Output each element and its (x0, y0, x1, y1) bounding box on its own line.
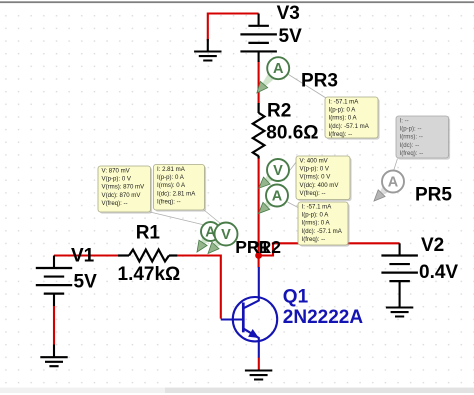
probe readout box PR3 (327, 99, 380, 140)
leader line PR3 (289, 75, 327, 99)
svg-text:5V: 5V (74, 272, 98, 293)
svg-text:V(freq): --: V(freq): -- (102, 200, 128, 207)
svg-text:I(p-p): 0 A: I(p-p): 0 A (302, 212, 330, 219)
svg-text:Q1: Q1 (283, 286, 309, 307)
wire collector node to V2 (259, 243, 400, 255)
svg-text:V1: V1 (71, 246, 95, 267)
wire R1 to Q1 base (177, 256, 221, 319)
svg-text:V(rms): 870 mV: V(rms): 870 mV (102, 184, 146, 191)
probe PR5 (inactive, gray) (380, 186, 389, 195)
svg-text:I(dc): 2.81 mA: I(dc): 2.81 mA (157, 190, 196, 197)
bottom horizontal scrollbar (0, 388, 474, 393)
svg-text:0.4V: 0.4V (419, 262, 458, 283)
svg-text:I: 2.81 mA: I: 2.81 mA (157, 166, 186, 173)
probe readout box PR1 voltage (100, 168, 153, 214)
svg-text:A: A (272, 188, 283, 204)
power source V2 (399, 243, 401, 255)
svg-text:V(freq): --: V(freq): -- (300, 190, 326, 197)
svg-text:V(dc): 870 mV: V(dc): 870 mV (102, 192, 142, 199)
wire V3 top to ground (208, 14, 259, 41)
probe readout box PR1 current (155, 166, 206, 212)
svg-text:I(p-p): 0 A: I(p-p): 0 A (329, 107, 357, 114)
leader line A probe mid (288, 202, 300, 208)
svg-text:V(rms): 0 V: V(rms): 0 V (300, 174, 332, 181)
probe PR4 current (mid A) (265, 200, 273, 208)
svg-text:I(rms): 0 A: I(rms): 0 A (157, 182, 186, 189)
wire collector node to Q1 collector (258, 256, 260, 268)
ground (Q1 emitter) (245, 371, 272, 380)
svg-text:R1: R1 (136, 223, 161, 244)
svg-text:I(freq): --: I(freq): -- (157, 199, 181, 206)
svg-text:5V: 5V (279, 26, 303, 47)
leader line left I box (204, 210, 224, 226)
wire V3 bottom to R2 (258, 62, 260, 104)
probe PR2 voltage (mid V) (265, 174, 273, 182)
power source V3 (258, 14, 260, 26)
svg-text:PR3: PR3 (301, 71, 338, 92)
ground (V2) (386, 308, 413, 317)
svg-text:PR2: PR2 (247, 237, 281, 257)
wire V1 to R1 (54, 254, 119, 256)
leader line left V box (150, 212, 207, 226)
svg-text:V3: V3 (277, 3, 300, 24)
leader line V probe mid (289, 161, 298, 172)
svg-text:I(dc): --: I(dc): -- (400, 142, 420, 149)
ground (V1) (53, 345, 55, 358)
svg-text:V: 400 mV: V: 400 mV (300, 157, 329, 164)
wire Q1 emitter to ground (258, 357, 260, 370)
svg-text:V(p-p): 0 V: V(p-p): 0 V (300, 166, 330, 173)
transistor Q1 2N2222A (221, 267, 277, 358)
node collector junction (255, 252, 262, 259)
svg-text:I(p-p): 0 A: I(p-p): 0 A (157, 174, 185, 181)
svg-text:2N2222A: 2N2222A (283, 307, 364, 328)
svg-text:I: -57.1 mA: I: -57.1 mA (329, 98, 360, 105)
svg-text:I(freq): --: I(freq): -- (329, 131, 353, 138)
svg-text:80.6Ω: 80.6Ω (266, 123, 318, 144)
svg-text:V2: V2 (421, 235, 444, 256)
svg-text:I: -57.1 mA: I: -57.1 mA (302, 203, 333, 210)
svg-text:A: A (273, 61, 284, 77)
ground (V3) (207, 39, 209, 52)
probe readout box PR5 (inactive) (398, 118, 451, 160)
svg-text:I(p-p): --: I(p-p): -- (400, 126, 422, 133)
svg-text:I(rms): 0 A: I(rms): 0 A (329, 115, 358, 122)
probe readout box PR2 voltage (298, 158, 352, 202)
svg-text:V(p-p): 0 V: V(p-p): 0 V (102, 176, 132, 183)
probe readout box PR4 current (300, 204, 350, 247)
resistor R1 (118, 254, 129, 256)
svg-text:1.47kΩ: 1.47kΩ (118, 264, 181, 285)
svg-text:A: A (388, 174, 399, 190)
svg-text:I(rms): --: I(rms): -- (400, 134, 423, 141)
svg-text:I(freq): --: I(freq): -- (302, 236, 326, 243)
svg-text:PR5: PR5 (415, 185, 452, 206)
wire R2 bottom to collector node (258, 158, 260, 256)
svg-text:V(dc): 400 mV: V(dc): 400 mV (300, 182, 340, 189)
svg-text:I: --: I: -- (400, 117, 409, 124)
probe PR3 (current) (262, 73, 275, 86)
svg-text:V: 870 mV: V: 870 mV (102, 167, 131, 174)
svg-text:V: V (273, 163, 283, 179)
wire V1 bottom to ground (53, 306, 55, 346)
probe PR1 current (left A) (201, 236, 209, 244)
svg-text:R2: R2 (267, 100, 291, 121)
probe PR1 voltage (left V) (214, 239, 222, 247)
power source V1 (53, 256, 55, 269)
top window border (0, 1, 474, 3)
svg-text:I(freq): --: I(freq): -- (400, 150, 424, 157)
svg-text:V: V (221, 227, 231, 243)
svg-text:I(rms): 0 A: I(rms): 0 A (302, 220, 331, 227)
leader line PR5 (394, 159, 398, 172)
svg-text:I(dc): -57.1 mA: I(dc): -57.1 mA (329, 123, 370, 130)
svg-text:I(dc): -57.1 mA: I(dc): -57.1 mA (302, 228, 343, 235)
resistor R2 (258, 103, 260, 113)
